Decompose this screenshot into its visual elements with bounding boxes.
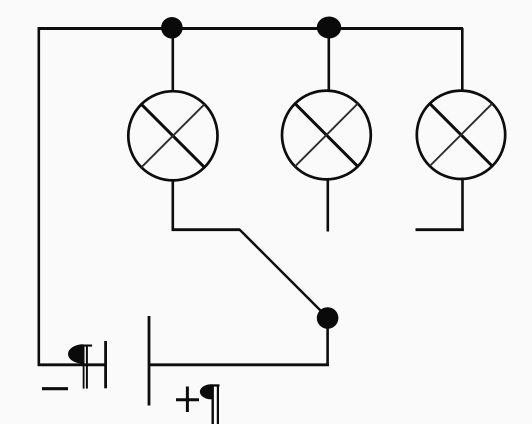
wire lamp L3 bottom lead bbox=[461, 178, 464, 232]
wire switch pivot to bottom bus bbox=[326, 317, 329, 366]
wire top bus bbox=[38, 27, 463, 30]
wire lamp L2 top lead bbox=[327, 28, 330, 91]
switch S1 blade bbox=[240, 230, 328, 318]
label plus sign bbox=[176, 387, 199, 413]
pilcrow mark 1 (formatting mark near negative terminal) bbox=[68, 344, 92, 388]
wire lamp L1 top lead bbox=[172, 28, 175, 92]
lamp L3 bbox=[417, 91, 505, 179]
switch S1 pivot node bbox=[317, 307, 339, 329]
wire bottom bus (battery positive to switch) bbox=[149, 363, 329, 366]
battery BT1 positive plate (long) bbox=[148, 316, 151, 406]
wire bottom-left to battery negative bbox=[38, 363, 105, 366]
pilcrow mark 2 (formatting mark after plus sign) bbox=[200, 384, 220, 424]
label minus sign bbox=[42, 387, 68, 390]
lamp L2 bbox=[282, 91, 371, 180]
wire lamp L2 bottom lead (open end) bbox=[326, 179, 329, 232]
junction node A (top, over L1) bbox=[161, 17, 183, 39]
wire lamp L1 to switch contact bbox=[172, 228, 241, 231]
wire lamp L3 bottom horizontal (open end) bbox=[416, 228, 464, 231]
battery BT1 negative plate (short) bbox=[104, 341, 107, 388]
wire lamp L1 bottom lead bbox=[172, 180, 175, 232]
lamp L1 bbox=[128, 91, 217, 180]
wire left side bbox=[37, 27, 40, 366]
junction node B (top, over L2) bbox=[317, 17, 341, 39]
wire right side (top bus to lamp L3) bbox=[461, 28, 464, 90]
